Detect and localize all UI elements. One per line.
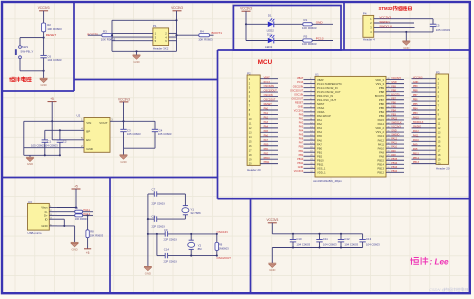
svg-text:R1: R1 (304, 18, 308, 22)
capacitor C13 (362, 234, 364, 240)
capacitor C11 (319, 234, 321, 240)
svg-text:VDD_3: VDD_3 (375, 78, 384, 82)
ground (crystal) (144, 267, 152, 271)
svg-text:OSC1IN: OSC1IN (217, 230, 228, 234)
svg-text:10K R0603: 10K R0603 (302, 42, 317, 46)
capacitor C7 (153, 191, 155, 196)
svg-text:PC13-TAMPER-RTC: PC13-TAMPER-RTC (317, 82, 342, 86)
svg-text:PD0-OSC_IN: PD0-OSC_IN (317, 94, 333, 98)
svg-text:PA12: PA12 (391, 138, 397, 141)
resistor R7 (75, 214, 83, 217)
node junction (175, 34, 177, 36)
boot box bottom border (74, 79, 218, 81)
wire VCC3V3 stem (reg out) (123, 102, 125, 121)
svg-text:PB7: PB7 (413, 94, 418, 97)
wire BOOT0 to R3 (88, 34, 102, 36)
svg-text:104 C0603: 104 C0603 (323, 242, 337, 246)
wire R6 to PA11 (83, 211, 93, 213)
node junction (175, 19, 177, 21)
svg-text:PA8: PA8 (379, 154, 384, 158)
wire GND pin (24, 147, 84, 149)
svg-text:VCC3V3: VCC3V3 (118, 97, 130, 101)
svg-text:PB8: PB8 (379, 90, 385, 94)
svg-text:PA8: PA8 (413, 148, 418, 151)
svg-text:PB13: PB13 (391, 166, 398, 169)
svg-text:VCC3V3: VCC3V3 (294, 109, 304, 112)
ground (boot) (133, 55, 141, 59)
svg-text:GND: GND (145, 271, 151, 275)
USB/crystal divider (109, 178, 111, 293)
wire SWD row2 SWDIO (374, 22, 414, 24)
svg-text:PB13: PB13 (413, 161, 420, 164)
wire GND drop (usb) (74, 226, 76, 243)
svg-text:CSDN @: CSDN @ (429, 287, 446, 292)
svg-text:VCC3V3: VCC3V3 (294, 170, 304, 173)
svg-text:PA11: PA11 (378, 142, 385, 146)
resistor R6 (75, 210, 83, 213)
svg-text:1M0603: 1M0603 (219, 246, 230, 250)
svg-text:PA6: PA6 (299, 138, 304, 141)
ground (reset) (40, 78, 48, 82)
connector P2 Header20 (247, 75, 260, 165)
svg-text:PA6: PA6 (264, 134, 269, 137)
node junction (111, 34, 113, 36)
svg-text:+5: +5 (74, 184, 78, 188)
resistor R3 (102, 34, 113, 37)
svg-text:PB0: PB0 (317, 146, 323, 150)
svg-text:PB9: PB9 (379, 86, 385, 90)
svg-text:PB1: PB1 (264, 148, 269, 151)
wire VCC3V3 stem (176, 11, 178, 20)
wire R8 to +5 (87, 238, 89, 249)
svg-text:GND: GND (40, 83, 46, 87)
svg-text:PA5: PA5 (264, 130, 269, 133)
wire boot loop (112, 19, 177, 21)
svg-text:PB4: PB4 (413, 108, 418, 111)
svg-text:SWDCLK: SWDCLK (413, 121, 424, 124)
svg-text:10K R0603: 10K R0603 (198, 38, 213, 42)
wire R5 to PC13 label (312, 40, 333, 42)
svg-text:PB5: PB5 (413, 103, 418, 106)
crystal Y1 32.768K (184, 194, 186, 206)
svg-text:C7: C7 (152, 187, 156, 191)
wire caps bottom rail (272, 247, 362, 249)
svg-text:PA4: PA4 (317, 130, 322, 134)
title reset circuit (CJK) (10, 77, 15, 81)
svg-text:105 C0603: 105 C0603 (127, 132, 141, 136)
wire SWD row3 SWDCLK (374, 26, 415, 28)
wire ID row (57, 218, 64, 220)
LED D1 (268, 22, 274, 28)
svg-text:PA9: PA9 (413, 143, 418, 146)
wire VCC stem (caps) (271, 223, 273, 234)
svg-text:PA2: PA2 (264, 117, 269, 120)
capacitor C14 (164, 253, 166, 258)
svg-text:PA3: PA3 (264, 121, 269, 124)
svg-text:PD1-OSC_OUT: PD1-OSC_OUT (317, 98, 336, 102)
svg-text:VDDA: VDDA (317, 110, 325, 114)
svg-text:PC15-OSC32_OUT: PC15-OSC32_OUT (317, 90, 341, 94)
svg-text:Header 20: Header 20 (247, 168, 261, 172)
capacitor C2 (59, 130, 61, 140)
svg-text:PA7: PA7 (299, 142, 304, 145)
svg-text:VSS_2: VSS_2 (376, 130, 385, 134)
wire junction to switch (20, 37, 44, 39)
svg-text:VCC3V3: VCC3V3 (38, 6, 50, 10)
svg-text:MCU: MCU (258, 59, 273, 66)
svg-text:PA9: PA9 (391, 150, 396, 153)
node junction (43, 70, 45, 72)
svg-text:PC13: PC13 (316, 37, 324, 41)
connector P3 pin stubs and net labels (412, 76, 441, 165)
svg-text:PB3: PB3 (391, 113, 396, 116)
svg-text:GND: GND (86, 147, 94, 151)
svg-text:PB13: PB13 (377, 167, 384, 171)
svg-text:PA9: PA9 (379, 150, 384, 154)
node junction (147, 233, 149, 235)
svg-text:105 C0603: 105 C0603 (436, 28, 451, 32)
resistor R8 (86, 230, 89, 238)
capacitor C3 (123, 121, 125, 129)
svg-text:22P C0603: 22P C0603 (164, 238, 178, 242)
resistor R1 (303, 23, 312, 26)
svg-text:VBAT: VBAT (317, 78, 324, 82)
svg-text:PB11: PB11 (317, 162, 324, 166)
push button SW1 SW-PB_Y (19, 46, 22, 49)
svg-text:+5: +5 (50, 97, 54, 101)
wire VCC3V3 to R2 (43, 11, 45, 23)
svg-text:+5: +5 (86, 251, 90, 255)
designer signature (CJK + Lee) (411, 257, 419, 264)
svg-text:PB15: PB15 (377, 158, 384, 162)
svg-text:PB3: PB3 (413, 112, 418, 115)
bottom boxes top border (2, 177, 218, 179)
wire loop to R4 (177, 34, 199, 36)
svg-text:Header 3X2: Header 3X2 (153, 46, 169, 50)
node junction (87, 214, 89, 216)
svg-text:PA8: PA8 (391, 154, 396, 157)
wire R4 to BOOT1 (210, 34, 214, 36)
node junction (405, 31, 407, 33)
svg-text:SWDIO: SWDIO (391, 134, 399, 137)
svg-text:PA10: PA10 (378, 146, 385, 150)
svg-text:BOOT1: BOOT1 (212, 31, 223, 35)
svg-text:PA15: PA15 (413, 117, 419, 120)
header P1 pin wires (112, 40, 153, 42)
svg-text:VCC3V3: VCC3V3 (413, 76, 423, 79)
wire switch to rail (19, 59, 21, 71)
svg-text:PB6: PB6 (379, 102, 385, 106)
svg-text:PB12: PB12 (377, 171, 384, 175)
svg-text:R5: R5 (304, 34, 308, 38)
svg-text:GND: GND (316, 20, 324, 24)
svg-text:PA1: PA1 (317, 118, 322, 122)
svg-text:PA12: PA12 (413, 130, 419, 133)
reset box border (2, 2, 74, 91)
node junction (122, 120, 124, 122)
svg-text:OSC32OUT: OSC32OUT (290, 89, 304, 92)
svg-text:C8: C8 (152, 214, 156, 218)
svg-text:OSC2OUT: OSC2OUT (291, 97, 303, 100)
LED D2 (268, 38, 274, 44)
svg-text:PB8: PB8 (391, 89, 396, 92)
svg-text:PA0: PA0 (299, 113, 304, 116)
svg-text:GND: GND (120, 160, 126, 164)
wire D+ row (57, 214, 75, 216)
svg-text:PB15: PB15 (391, 158, 398, 161)
svg-text:PA0-WKUP: PA0-WKUP (317, 114, 331, 118)
svg-text:PA14: PA14 (378, 122, 385, 126)
svg-text:SWDIO: SWDIO (413, 125, 421, 128)
MCU U1 right pins, stubs and net labels (375, 77, 404, 174)
wire row2 (32k) (148, 218, 154, 220)
svg-text:PA5: PA5 (299, 134, 304, 137)
svg-text:USB-micro: USB-micro (28, 231, 42, 235)
crystal/caps divider (250, 199, 252, 292)
svg-text:GND: GND (27, 162, 33, 166)
LED box border (233, 6, 341, 51)
node junction (51, 120, 53, 122)
capacitor C5 (432, 19, 434, 24)
svg-text:GND: GND (133, 60, 139, 64)
svg-text:PA2: PA2 (317, 122, 322, 126)
wire row2 to D2 (246, 40, 268, 42)
svg-text:22P C0603: 22P C0603 (152, 202, 166, 206)
svg-text:32.768K: 32.768K (190, 211, 201, 215)
svg-text:PB3: PB3 (379, 114, 385, 118)
svg-text:GND: GND (391, 81, 397, 84)
svg-text:P3: P3 (436, 70, 440, 74)
svg-text:GND: GND (298, 166, 304, 169)
wire caps top rail (272, 233, 362, 235)
svg-text:PC14-OSC32_IN: PC14-OSC32_IN (317, 86, 338, 90)
svg-text:PB4: PB4 (379, 110, 385, 114)
svg-text:VDD_1: VDD_1 (317, 171, 326, 175)
svg-text:PA1: PA1 (264, 112, 269, 115)
svg-text:PB4: PB4 (391, 109, 396, 112)
svg-text:VBAT: VBAT (264, 76, 271, 79)
wire VIN top (24, 120, 84, 122)
svg-text:: Lee: : Lee (430, 257, 450, 266)
svg-text:NRST: NRST (317, 102, 325, 106)
svg-text:PB12: PB12 (391, 170, 398, 173)
MCU box border (218, 50, 471, 199)
svg-text:PB7: PB7 (391, 97, 396, 100)
wire GND drop (caps) (271, 248, 273, 264)
svg-text:VCC3V3: VCC3V3 (266, 218, 278, 222)
svg-text:PA10: PA10 (391, 146, 397, 149)
svg-text:R3: R3 (103, 29, 107, 33)
svg-text:PA6: PA6 (317, 138, 322, 142)
wire row3 OSC_IN (148, 233, 165, 235)
wire SWD row1 VCC3V3 (374, 18, 433, 20)
capacitor C8 (153, 216, 155, 221)
svg-text:EN: EN (86, 138, 90, 142)
svg-text:104 C0603: 104 C0603 (344, 242, 358, 246)
wire GND drop (boot) (136, 51, 138, 55)
svg-text:PB5: PB5 (379, 106, 385, 110)
svg-text:10K R0603: 10K R0603 (75, 217, 89, 221)
ground (caps) (268, 263, 276, 267)
svg-text:C12: C12 (344, 237, 350, 241)
resistor R5 (303, 39, 312, 42)
svg-text:105 C0603: 105 C0603 (31, 144, 45, 148)
svg-text:PA5: PA5 (317, 134, 322, 138)
svg-text:Header 4: Header 4 (363, 38, 375, 42)
svg-text:GND: GND (41, 224, 47, 228)
svg-text:R4: R4 (200, 29, 204, 33)
svg-text:PA11: PA11 (391, 142, 397, 145)
svg-text:RESET: RESET (46, 33, 56, 37)
svg-text:104 C0603: 104 C0603 (366, 242, 380, 246)
wire SWD row4 GND (374, 31, 433, 33)
svg-text:PA12: PA12 (378, 138, 385, 142)
svg-text:GND: GND (269, 268, 275, 272)
svg-text:C5: C5 (436, 23, 440, 27)
svg-text:VSS_1: VSS_1 (317, 167, 326, 171)
svg-text:PA1: PA1 (299, 118, 304, 121)
capacitor C9 (164, 231, 166, 236)
SWD box left border (343, 2, 345, 50)
wire GND drop (swd) (405, 32, 407, 41)
wire input bottom (24, 154, 60, 156)
svg-text:C10: C10 (296, 237, 302, 241)
svg-text:104 C0603: 104 C0603 (47, 58, 62, 62)
svg-text:PB5: PB5 (391, 105, 396, 108)
svg-text:OSC32OUT: OSC32OUT (264, 90, 278, 93)
node junction (44, 154, 46, 156)
wire D- row (57, 211, 75, 213)
svg-text:U3: U3 (28, 200, 32, 204)
svg-text:PB10: PB10 (317, 158, 324, 162)
wire crystal gnd rail (147, 194, 149, 267)
svg-text:PA0: PA0 (264, 108, 269, 111)
svg-text:OSC2OUT: OSC2OUT (217, 256, 232, 260)
svg-text:PB9: PB9 (413, 85, 418, 88)
ground (swd) (402, 41, 410, 45)
wire D2 to R5 (274, 40, 303, 42)
svg-text:VCC3V3: VCC3V3 (240, 7, 252, 11)
resistor R9 1M (216, 234, 218, 243)
svg-text:PB2: PB2 (317, 154, 323, 158)
wire row3 to row4 (156, 234, 158, 256)
connector P4 Header4 (363, 15, 374, 37)
svg-text:PA15: PA15 (378, 118, 385, 122)
svg-text:VDD_2: VDD_2 (375, 126, 384, 130)
svg-text:ID: ID (45, 217, 48, 221)
svg-text:BOOT0: BOOT0 (87, 32, 98, 36)
header P1 pin wires (112, 32, 153, 34)
wire R2 to C6 (43, 32, 45, 56)
svg-text:D2: D2 (267, 33, 271, 37)
wire R7 to PA12 (83, 214, 93, 216)
svg-text:PB2: PB2 (299, 154, 304, 157)
capacitor C12 (340, 234, 342, 240)
svg-text:SW1: SW1 (22, 45, 29, 49)
svg-text:PB11: PB11 (297, 162, 303, 165)
svg-text:22P C0603: 22P C0603 (164, 259, 178, 263)
MCU U1 left pins, stubs and net labels (290, 77, 342, 174)
svg-text:OSC1IN: OSC1IN (294, 93, 303, 96)
wire VOUT (110, 120, 155, 122)
svg-text:C11: C11 (323, 237, 328, 241)
svg-text:PB2: PB2 (264, 152, 269, 155)
wire D1 to R1 (274, 23, 303, 25)
svg-text:PB0: PB0 (299, 146, 304, 149)
svg-text:PA10: PA10 (413, 139, 419, 142)
svg-text:10K R0603: 10K R0603 (90, 234, 104, 238)
svg-text:PA11: PA11 (413, 134, 419, 137)
svg-text:VIN: VIN (86, 121, 91, 125)
wire EN pin (52, 139, 84, 141)
svg-text:R8: R8 (90, 230, 94, 234)
capacitor C6 (40, 54, 46, 56)
svg-text:D1: D1 (268, 14, 272, 18)
wire row1 to D1 (246, 23, 268, 25)
wire GND row (57, 225, 75, 227)
svg-text:PB10: PB10 (264, 157, 271, 160)
svg-text:PB14: PB14 (391, 162, 398, 165)
svg-text:104 C0603: 104 C0603 (296, 242, 310, 246)
svg-text:22P C0603: 22P C0603 (152, 224, 166, 228)
svg-text:PA7: PA7 (317, 142, 322, 146)
capacitor C4 (154, 121, 156, 129)
svg-text:PB7: PB7 (379, 98, 385, 102)
svg-text:P1: P1 (153, 24, 157, 28)
svg-text:PC13: PC13 (264, 81, 271, 84)
node junction (135, 50, 137, 52)
power port +5 down (usb pullup) (84, 248, 91, 250)
header P1 pin wires (112, 36, 153, 38)
wire output bottom (124, 147, 156, 149)
crystal Y2 8M (190, 234, 192, 240)
svg-text:SWDIO: SWDIO (379, 20, 390, 24)
svg-text:PB14: PB14 (413, 157, 420, 160)
wire R3 to loop (111, 34, 114, 36)
svg-text:P2: P2 (247, 71, 251, 75)
svg-text:SWDCLK: SWDCLK (391, 122, 402, 125)
ground (reg output) (123, 148, 125, 155)
svg-text:OSC32IN: OSC32IN (293, 85, 304, 88)
svg-text:BP: BP (86, 130, 90, 134)
svg-text:GND: GND (298, 105, 304, 108)
svg-text:VCC3V3: VCC3V3 (171, 6, 183, 10)
svg-text:VCC3V3: VCC3V3 (391, 77, 401, 80)
svg-text:PA15: PA15 (391, 118, 397, 121)
svg-text:RESET: RESET (295, 101, 304, 104)
svg-text:VSSA: VSSA (317, 106, 324, 110)
wire row1 (32k) (148, 193, 154, 195)
wire C6 to GND (43, 58, 45, 79)
svg-text:VBAT: VBAT (297, 77, 304, 80)
svg-text:8M: 8M (198, 247, 203, 251)
svg-text:RESET: RESET (264, 103, 273, 106)
svg-text:105 C0603: 105 C0603 (158, 132, 172, 136)
svg-text:P4: P4 (363, 12, 367, 16)
svg-text:SWDCLK: SWDCLK (379, 24, 392, 28)
svg-text:PB0: PB0 (264, 143, 269, 146)
svg-text:PB15: PB15 (413, 152, 420, 155)
svg-text:C14: C14 (164, 248, 170, 252)
node junction (63, 225, 65, 227)
svg-text:PB1: PB1 (317, 150, 323, 154)
capacitor C1 (42, 139, 48, 141)
svg-text:OSC1IN: OSC1IN (264, 94, 273, 97)
svg-text:PB6: PB6 (413, 99, 418, 102)
svg-text:PB9: PB9 (391, 85, 396, 88)
regulator U2 (84, 118, 110, 153)
svg-text:U2: U2 (77, 114, 81, 118)
